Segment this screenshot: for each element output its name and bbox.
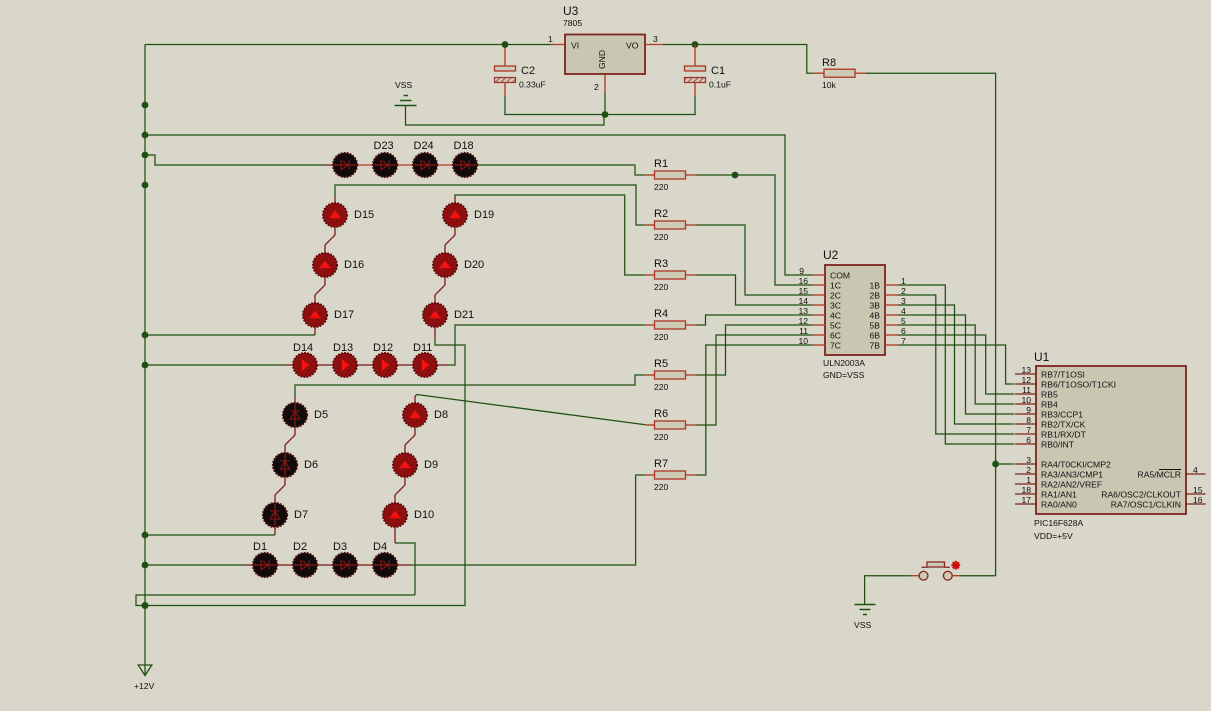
- wire RA4 pin3: [996, 463, 1015, 465]
- svg-text:D8: D8: [434, 409, 448, 421]
- LED D4: [373, 553, 397, 577]
- svg-text:D5: D5: [314, 409, 328, 421]
- svg-text:220: 220: [654, 332, 669, 342]
- pin 9 RB3: [1015, 413, 1036, 415]
- wire 2B to RB1: [897, 295, 1014, 434]
- svg-text:D14: D14: [293, 342, 313, 354]
- wire top row LEDs link: [333, 164, 477, 166]
- svg-text:D3: D3: [333, 541, 347, 553]
- svg-text:220: 220: [654, 182, 669, 192]
- svg-text:1: 1: [548, 34, 553, 44]
- svg-text:4: 4: [1193, 465, 1198, 475]
- resistor R3: [645, 274, 655, 276]
- svg-text:16: 16: [1193, 495, 1203, 505]
- LED D23: [373, 153, 397, 177]
- svg-text:VSS: VSS: [854, 620, 871, 630]
- svg-text:7805: 7805: [563, 18, 582, 28]
- LED D7: [263, 503, 287, 527]
- LED D11: [413, 353, 437, 377]
- pin 10 7C: [813, 344, 825, 346]
- pin 11 6C: [813, 334, 825, 336]
- button actuator star: [951, 561, 960, 570]
- svg-text:3B: 3B: [869, 301, 880, 311]
- pin 4 4B: [885, 314, 897, 316]
- node rail y155: [142, 152, 149, 159]
- wire D3-D4: [357, 564, 373, 566]
- svg-text:1C: 1C: [830, 281, 841, 291]
- svg-text:8: 8: [1026, 415, 1031, 425]
- svg-text:D13: D13: [333, 342, 353, 354]
- svg-text:18: 18: [1021, 485, 1031, 495]
- pin 3 U3: [645, 44, 663, 46]
- LED D13: [333, 353, 357, 377]
- resistor R8: [813, 72, 824, 74]
- node rail y185: [142, 182, 149, 189]
- LED D12: [373, 353, 397, 377]
- svg-text:220: 220: [654, 432, 669, 442]
- microcontroller U1 PIC16F628A: [1036, 366, 1186, 514]
- pin 1 U3: [551, 44, 565, 46]
- svg-text:GND: GND: [597, 50, 607, 69]
- svg-text:D9: D9: [424, 459, 438, 471]
- LED D1: [253, 553, 277, 577]
- wire button to ground: [865, 576, 911, 605]
- wire VSS to GND rail: [406, 106, 605, 126]
- svg-text:R2: R2: [654, 208, 668, 220]
- pin 5 5B: [885, 324, 897, 326]
- capacitor C1: [694, 45, 696, 67]
- wire D5-D6: [285, 427, 295, 453]
- wire D16-D17: [315, 277, 325, 303]
- LED D24: [413, 153, 437, 177]
- pin 7 7B: [885, 344, 897, 346]
- LED D17: [303, 303, 327, 327]
- pin 14 3C: [813, 304, 825, 306]
- node GND rail: [602, 111, 609, 118]
- node rail y135: [142, 132, 149, 139]
- pin 18 RA1: [1015, 493, 1036, 495]
- svg-text:2B: 2B: [869, 291, 880, 301]
- svg-text:D23: D23: [374, 140, 394, 152]
- LED D3: [333, 553, 357, 577]
- wire D15 top to R2: [334, 197, 336, 204]
- resistor R7: [655, 471, 686, 479]
- wire U3 GND down: [604, 93, 606, 115]
- pin 12 5C: [813, 324, 825, 326]
- wire D6-D7: [275, 477, 285, 503]
- svg-text:R7: R7: [654, 458, 668, 470]
- svg-text:PIC16F628A: PIC16F628A: [1034, 518, 1083, 528]
- svg-text:14: 14: [798, 296, 808, 306]
- svg-text:220: 220: [654, 482, 669, 492]
- svg-text:9: 9: [799, 266, 804, 276]
- svg-text:15: 15: [798, 286, 808, 296]
- node C1 top: [692, 41, 699, 48]
- node rail y365: [142, 362, 149, 369]
- pin 1 RA2: [1015, 483, 1036, 485]
- svg-text:11: 11: [799, 326, 808, 336]
- svg-text:RA1/AN1: RA1/AN1: [1041, 490, 1077, 500]
- LED D10: [383, 503, 407, 527]
- svg-text:6B: 6B: [869, 331, 880, 341]
- svg-text:RB1/RX/DT: RB1/RX/DT: [1041, 430, 1087, 440]
- svg-text:D4: D4: [373, 541, 387, 553]
- pin 6 6B: [885, 334, 897, 336]
- pin 12 RB6: [1015, 383, 1036, 385]
- wire C1 bottom: [605, 96, 695, 115]
- svg-text:10: 10: [1021, 395, 1031, 405]
- wire R7 to 7C: [696, 345, 813, 475]
- wire D1-D2: [277, 564, 293, 566]
- driver U2 ULN2003A: [825, 265, 885, 355]
- pin 4 RA5/MCLR: [1186, 473, 1206, 475]
- wire D19-D20: [445, 227, 455, 253]
- svg-text:220: 220: [654, 232, 669, 242]
- svg-text:0.1uF: 0.1uF: [709, 80, 731, 90]
- svg-text:C1: C1: [711, 65, 725, 77]
- svg-text:ULN2003A: ULN2003A: [823, 358, 865, 368]
- wire top row to R1: [477, 165, 645, 175]
- svg-text:RB4: RB4: [1041, 400, 1058, 410]
- svg-text:2C: 2C: [830, 291, 841, 301]
- wire top LED row feed: [145, 155, 326, 165]
- wire 3B to RB2: [897, 305, 1014, 424]
- svg-text:R5: R5: [654, 358, 668, 370]
- resistor R6: [655, 421, 686, 429]
- svg-text:R3: R3: [654, 258, 668, 270]
- wire D20-D21: [435, 277, 445, 303]
- svg-text:5B: 5B: [869, 321, 880, 331]
- svg-text:RA5/MCLR: RA5/MCLR: [1138, 470, 1181, 480]
- LED D8: [403, 403, 427, 427]
- pin 3 3B: [885, 304, 897, 306]
- svg-text:R6: R6: [654, 408, 668, 420]
- svg-text:4C: 4C: [830, 311, 841, 321]
- pin 9 COM: [813, 274, 825, 276]
- node rail y535: [142, 532, 149, 539]
- pin 16 RA7: [1186, 503, 1206, 505]
- pin 16 1C: [813, 284, 825, 286]
- svg-text:13: 13: [798, 306, 808, 316]
- svg-text:RA3/AN3/CMP1: RA3/AN3/CMP1: [1041, 470, 1103, 480]
- wire D4 to R7: [397, 564, 411, 566]
- pin 15 RA6: [1186, 493, 1206, 495]
- LED D15: [323, 203, 347, 227]
- wire R3 to 3C: [696, 275, 813, 305]
- node C2 top: [502, 41, 509, 48]
- svg-text:RA0/AN0: RA0/AN0: [1041, 500, 1077, 510]
- resistor R5: [645, 374, 655, 376]
- wire 7B to RB6: [897, 345, 1014, 384]
- svg-text:C2: C2: [521, 65, 535, 77]
- pin 11 RB5: [1015, 393, 1036, 395]
- pin 1 1B: [885, 284, 897, 286]
- svg-text:VO: VO: [626, 41, 639, 51]
- svg-text:R8: R8: [822, 57, 836, 69]
- svg-text:11: 11: [1022, 385, 1031, 395]
- svg-text:RA4/T0CKI/CMP2: RA4/T0CKI/CMP2: [1041, 460, 1111, 470]
- wire 1B to RB0: [897, 285, 1014, 444]
- wire R2 to 2C: [696, 225, 813, 295]
- pin 2 2B: [885, 294, 897, 296]
- wire R4 to 4C: [696, 315, 813, 325]
- svg-text:D7: D7: [294, 509, 308, 521]
- svg-text:D19: D19: [474, 209, 494, 221]
- svg-text:D16: D16: [344, 259, 364, 271]
- svg-text:7C: 7C: [830, 341, 841, 351]
- wire D2-D3: [317, 564, 333, 566]
- svg-text:RB2/TX/CK: RB2/TX/CK: [1041, 420, 1086, 430]
- wire 4B to RB3: [897, 315, 1014, 414]
- svg-text:RB6/T1OSO/T1CKI: RB6/T1OSO/T1CKI: [1041, 380, 1116, 390]
- svg-text:VI: VI: [571, 41, 579, 51]
- pin 2 U3: [604, 74, 606, 93]
- svg-text:D24: D24: [414, 140, 434, 152]
- capacitor C2: [504, 45, 506, 67]
- svg-text:RB3/CCP1: RB3/CCP1: [1041, 410, 1083, 420]
- svg-text:D1: D1: [253, 541, 267, 553]
- wire R6 to 6C: [696, 335, 813, 425]
- svg-text:D20: D20: [464, 259, 484, 271]
- pin 7 RB1: [1015, 433, 1036, 435]
- svg-text:6: 6: [1026, 435, 1031, 445]
- svg-text:3: 3: [653, 34, 658, 44]
- svg-text:RA2/AN2/VREF: RA2/AN2/VREF: [1041, 480, 1102, 490]
- svg-text:RA7/OSC1/CLKIN: RA7/OSC1/CLKIN: [1111, 500, 1181, 510]
- LED D2: [293, 553, 317, 577]
- LED D22: [333, 153, 357, 177]
- LED D5: [283, 403, 307, 427]
- svg-text:3: 3: [1026, 455, 1031, 465]
- LED D6: [273, 453, 297, 477]
- svg-text:D10: D10: [414, 509, 434, 521]
- pin 8 RB2: [1015, 423, 1036, 425]
- node R1 wire: [732, 172, 739, 179]
- pin 17 RA0: [1015, 503, 1036, 505]
- svg-text:220: 220: [654, 382, 669, 392]
- wire +12V top rail horizontal: [145, 44, 551, 46]
- wire D21 bottom to +12V net: [434, 327, 436, 338]
- svg-text:RB5: RB5: [1041, 390, 1058, 400]
- svg-text:D21: D21: [454, 309, 474, 321]
- svg-text:2: 2: [1026, 465, 1031, 475]
- power +12V terminal: [138, 665, 152, 676]
- svg-text:1B: 1B: [869, 281, 880, 291]
- svg-text:VSS: VSS: [395, 80, 412, 90]
- pin 3 RA4: [1015, 463, 1036, 465]
- LED D9: [393, 453, 417, 477]
- svg-text:4B: 4B: [869, 311, 880, 321]
- svg-text:D17: D17: [334, 309, 354, 321]
- wire D19 top to R3: [454, 197, 456, 204]
- svg-text:D12: D12: [373, 342, 393, 354]
- wire COM feed: [145, 135, 813, 275]
- svg-text:7B: 7B: [869, 341, 880, 351]
- wire R8 to button net: [866, 73, 996, 576]
- svg-text:16: 16: [798, 276, 808, 286]
- svg-text:RB0/INT: RB0/INT: [1041, 440, 1075, 450]
- svg-text:15: 15: [1193, 485, 1203, 495]
- svg-text:0.33uF: 0.33uF: [519, 80, 546, 90]
- wire U3 out to R8: [663, 45, 813, 74]
- pushbutton: [952, 575, 960, 577]
- wire C2 bottom: [505, 96, 605, 115]
- svg-text:12: 12: [1021, 375, 1031, 385]
- resistor R1: [645, 174, 655, 176]
- pin 6 RB0: [1015, 443, 1036, 445]
- wire D9-D10: [395, 477, 405, 503]
- wire 5B to RB4: [897, 325, 1014, 404]
- svg-text:GND=VSS: GND=VSS: [823, 370, 865, 380]
- resistor R2: [645, 224, 655, 226]
- svg-text:COM: COM: [830, 271, 850, 281]
- svg-text:10: 10: [798, 336, 808, 346]
- svg-text:3C: 3C: [830, 301, 841, 311]
- node rail y605: [142, 602, 149, 609]
- node rail y335: [142, 332, 149, 339]
- node rail y565: [142, 562, 149, 569]
- LED D18: [453, 153, 477, 177]
- svg-text:U1: U1: [1034, 350, 1050, 364]
- node RA4 junction: [992, 461, 999, 468]
- wire D13-D12: [357, 364, 373, 366]
- svg-text:D2: D2: [293, 541, 307, 553]
- resistor R4: [645, 324, 655, 326]
- svg-text:6C: 6C: [830, 331, 841, 341]
- voltage regulator U3: [565, 35, 645, 75]
- svg-text:RB7/T1OSI: RB7/T1OSI: [1041, 370, 1085, 380]
- LED D14: [293, 353, 317, 377]
- wire D8-D9: [405, 427, 415, 453]
- wire D15-D16: [325, 227, 335, 253]
- LED D20: [433, 253, 457, 277]
- svg-text:13: 13: [1021, 365, 1031, 375]
- svg-text:U2: U2: [823, 248, 839, 262]
- wire middle row feed: [145, 364, 286, 366]
- svg-text:12: 12: [798, 316, 808, 326]
- LED D16: [313, 253, 337, 277]
- svg-text:D18: D18: [454, 140, 474, 152]
- svg-text:9: 9: [1026, 405, 1031, 415]
- wire D8 top diagonal to R6: [414, 396, 416, 403]
- svg-text:R1: R1: [654, 158, 668, 170]
- pin 15 2C: [813, 294, 825, 296]
- ground VSS bottom: [855, 604, 876, 606]
- svg-text:R4: R4: [654, 308, 668, 320]
- wire R1 to 1C: [696, 175, 813, 285]
- svg-text:17: 17: [1021, 495, 1031, 505]
- wire D5 top to R5: [294, 396, 296, 403]
- wire R5 to 5C: [696, 325, 813, 375]
- svg-text:D11: D11: [413, 342, 432, 354]
- pin 13 4C: [813, 314, 825, 316]
- wire D17 bottom to rail: [314, 327, 316, 335]
- wire D11 to R4: [437, 364, 448, 366]
- svg-text:1: 1: [1026, 475, 1031, 485]
- wire left vertical rail: [144, 45, 146, 677]
- pin 13 RB7: [1015, 373, 1036, 375]
- pin 2 RA3: [1015, 473, 1036, 475]
- wire D10 bottom to 595 rail: [394, 527, 396, 543]
- svg-text:10k: 10k: [822, 80, 837, 90]
- wire D12-D11: [397, 364, 413, 366]
- svg-text:220: 220: [654, 282, 669, 292]
- svg-text:2: 2: [594, 82, 599, 92]
- svg-text:RA6/OSC2/CLKOUT: RA6/OSC2/CLKOUT: [1101, 490, 1182, 500]
- node rail y105: [142, 102, 149, 109]
- svg-text:D6: D6: [304, 459, 318, 471]
- svg-text:+12V: +12V: [134, 681, 155, 691]
- LED D19: [443, 203, 467, 227]
- wire 6B to RB5: [897, 335, 1014, 394]
- svg-text:VDD=+5V: VDD=+5V: [1034, 531, 1073, 541]
- wire D14-D13: [317, 364, 333, 366]
- LED D21: [423, 303, 447, 327]
- svg-text:5C: 5C: [830, 321, 841, 331]
- svg-text:7: 7: [1026, 425, 1031, 435]
- wire bottom row feed: [145, 564, 246, 566]
- pin 10 RB4: [1015, 403, 1036, 405]
- svg-text:U3: U3: [563, 4, 579, 18]
- wire D7 bottom to rail: [274, 527, 276, 535]
- svg-text:D15: D15: [354, 209, 374, 221]
